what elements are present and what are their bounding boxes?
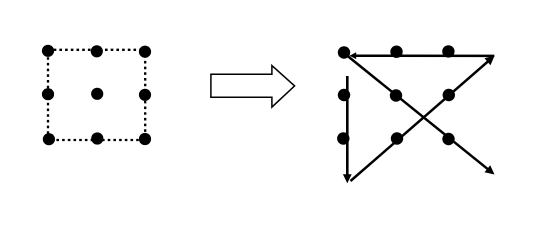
right grid dot (1,3) xyxy=(442,45,454,57)
right grid dot (1,2) xyxy=(390,46,402,58)
solution line 4: diagonal from bottom-left up through middle-right, arrowhead up-right xyxy=(351,61,490,181)
arrowhead down-right xyxy=(485,165,495,174)
arrowhead up-right xyxy=(485,56,495,65)
left grid dot (3,1) xyxy=(43,133,55,145)
right grid dot (3,2) xyxy=(391,132,403,144)
block arrow (transition) xyxy=(211,66,295,108)
left grid dot (1,2) xyxy=(91,45,103,57)
left grid dot (1,3) xyxy=(139,46,151,58)
left grid dot (2,2) xyxy=(91,88,103,100)
right grid dot (2,2) xyxy=(390,89,402,101)
solution line 3: diagonal from top-left through centre to beyond bottom-right, arrowhead down-right xyxy=(345,54,489,170)
solution line 1: horizontal along top row, arrowhead pointing left xyxy=(356,54,495,57)
left grid dot (2,3) xyxy=(139,89,151,101)
arrowhead down at bottom of vertical line xyxy=(343,174,352,183)
left grid dot (2,1) xyxy=(42,88,54,100)
dotted square border (left puzzle frame) xyxy=(48,50,145,140)
solution line 2: vertical down left column, arrowhead pointing down xyxy=(346,76,349,175)
left grid dot (1,1) xyxy=(42,45,54,57)
right grid dot (2,3) xyxy=(443,89,455,101)
right grid dot (2,1) xyxy=(338,89,350,101)
arrowhead left at top-left dot xyxy=(350,52,357,59)
right grid dot (3,3) xyxy=(442,133,454,145)
left grid dot (3,3) xyxy=(139,133,151,145)
left grid dot (3,2) xyxy=(91,132,103,144)
right grid dot (1,1) xyxy=(338,46,350,58)
right grid dot (3,1) xyxy=(337,132,349,144)
